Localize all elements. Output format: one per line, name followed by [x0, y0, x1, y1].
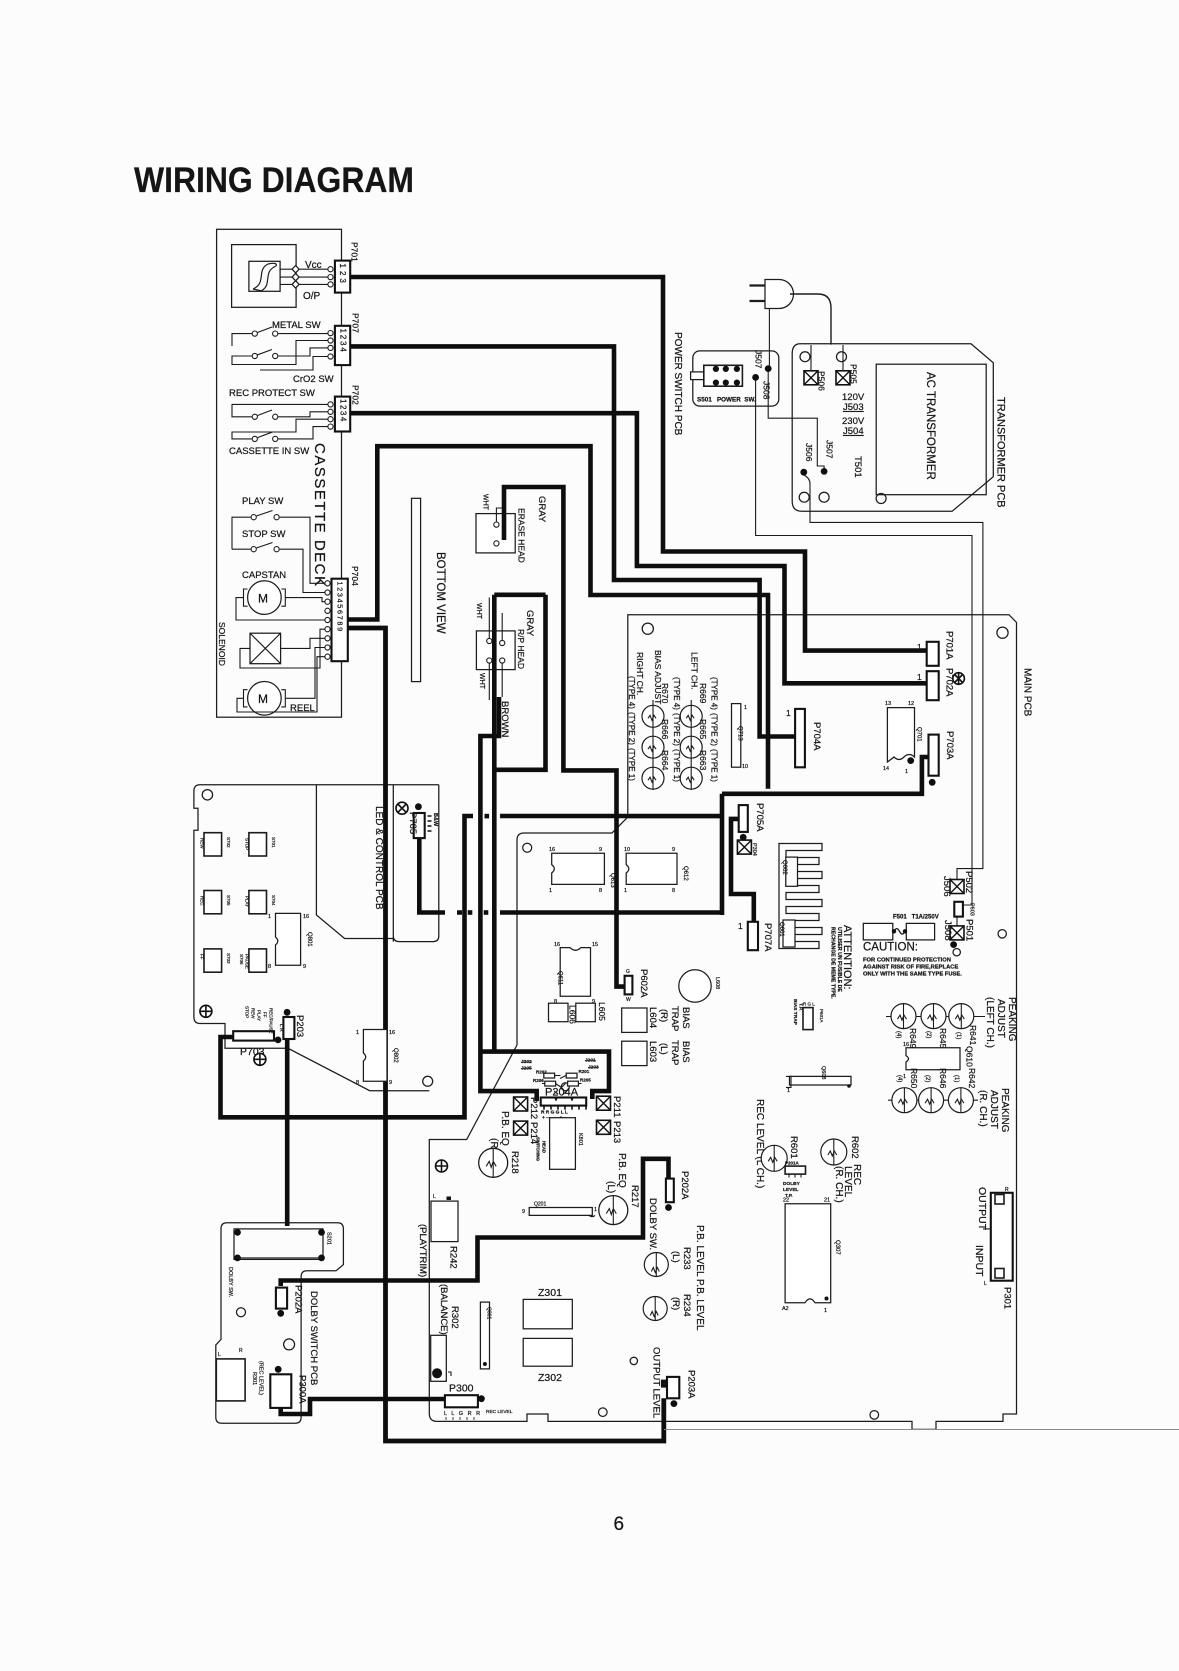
- svg-text:TRAP: TRAP: [669, 1040, 680, 1065]
- svg-text:L605: L605: [597, 1002, 607, 1021]
- svg-text:(L): (L): [658, 1043, 669, 1055]
- svg-text:J508: J508: [762, 381, 772, 400]
- IC Q201 bar: [529, 1208, 595, 1217]
- button S703 FF: [204, 949, 222, 972]
- svg-text:P213: P213: [611, 1121, 622, 1143]
- svg-text:1: 1: [356, 1030, 359, 1036]
- wire J506 to P502: [804, 475, 983, 881]
- svg-text:R670: R670: [660, 683, 670, 704]
- svg-text:R302: R302: [449, 1306, 460, 1329]
- connector P702A: [927, 671, 939, 700]
- svg-text:1: 1: [624, 888, 627, 894]
- svg-text:L R: L R: [278, 1024, 284, 1032]
- trimmer R217: [599, 1196, 628, 1225]
- svg-text:R206: R206: [533, 1078, 544, 1083]
- svg-text:(L): (L): [670, 1251, 681, 1263]
- screw near P702A: [953, 673, 965, 685]
- svg-text:R666: R666: [660, 719, 670, 740]
- node J507 power switch: [765, 365, 772, 372]
- svg-text:9: 9: [672, 847, 675, 853]
- svg-text:POWER SWITCH PCB: POWER SWITCH PCB: [672, 332, 683, 436]
- svg-text:F501 T1A/250V: F501 T1A/250V: [893, 915, 939, 921]
- svg-text:123456789: 123456789: [336, 582, 345, 633]
- svg-text:R218: R218: [509, 1151, 520, 1174]
- svg-text:CASSETTE DECK: CASSETTE DECK: [311, 443, 328, 588]
- svg-text:OUTPUT: OUTPUT: [976, 1187, 988, 1231]
- svg-text:L: L: [984, 1281, 987, 1287]
- fuse F501: [892, 929, 896, 933]
- P701 pin circles: [328, 267, 333, 272]
- wire P300A to P300: [281, 1399, 445, 1414]
- button S704 PLAY: [249, 891, 267, 914]
- svg-text:(TYPE 4): (TYPE 4): [710, 677, 719, 710]
- svg-text:J205: J205: [521, 1066, 532, 1072]
- wire V1 vertical: [720, 794, 725, 915]
- connector P703A: [929, 735, 939, 776]
- svg-text:R664: R664: [660, 750, 670, 771]
- svg-text:R602: R602: [849, 1136, 860, 1159]
- svg-text:R641: R641: [968, 1025, 978, 1046]
- svg-text:PAUSE: PAUSE: [245, 954, 250, 969]
- svg-text:STOP SW: STOP SW: [242, 529, 285, 540]
- svg-text:CrO2 SW: CrO2 SW: [293, 374, 334, 385]
- coil L603: [622, 1041, 647, 1065]
- page rule line: [664, 1429, 1179, 1431]
- svg-text:PEAKING: PEAKING: [999, 1088, 1010, 1133]
- metal switch: [252, 331, 257, 336]
- svg-text:1234: 1234: [339, 329, 348, 354]
- wire J508 to P501: [756, 380, 972, 927]
- wire P202A dolby to main: [281, 1159, 669, 1286]
- svg-text:STOP: STOP: [245, 838, 250, 850]
- svg-text:(PLAYTRIM): (PLAYTRIM): [417, 1224, 428, 1277]
- wire P203 to dolby pcb: [285, 1040, 290, 1226]
- IC Q713: [732, 704, 741, 768]
- svg-text:R645: R645: [938, 1028, 948, 1049]
- svg-text:PLAY SW: PLAY SW: [242, 496, 283, 507]
- erase head box: [476, 514, 515, 553]
- svg-text:P300A: P300A: [297, 1375, 308, 1404]
- fuse clip left: [863, 923, 893, 940]
- heatsink: [779, 844, 822, 949]
- svg-text:FF: FF: [263, 1012, 268, 1018]
- svg-text:(TYPE 4): (TYPE 4): [672, 677, 681, 710]
- svg-text:BOTTOM VIEW: BOTTOM VIEW: [434, 552, 446, 634]
- svg-text:10: 10: [742, 764, 748, 770]
- connector P300: [445, 1395, 478, 1407]
- svg-text:W: W: [626, 997, 631, 1003]
- dolby switch pcb outline: [216, 1223, 344, 1424]
- svg-text:(4): (4): [896, 1075, 902, 1082]
- trimmer R601: [761, 1145, 787, 1171]
- svg-text:1: 1: [787, 1088, 790, 1094]
- svg-text:REC/PAUSE: REC/PAUSE: [269, 1008, 274, 1034]
- svg-text:S201: S201: [326, 1232, 332, 1245]
- connector P300A: [270, 1374, 291, 1408]
- IC Q610: [906, 1048, 960, 1070]
- transformer PCB outline: [792, 344, 993, 512]
- svg-text:J504: J504: [843, 426, 864, 437]
- svg-text:ERASE HEAD: ERASE HEAD: [517, 508, 527, 563]
- svg-text:S703: S703: [226, 953, 231, 964]
- svg-text:CAPSTAN: CAPSTAN: [242, 570, 286, 581]
- svg-text:P204A: P204A: [545, 1087, 579, 1099]
- node J508 power switch: [752, 374, 759, 381]
- svg-text:S702: S702: [226, 837, 231, 848]
- svg-text:J506: J506: [804, 443, 814, 462]
- trimmer R234: [643, 1297, 667, 1321]
- svg-text:(R): (R): [658, 1009, 669, 1022]
- svg-text:13: 13: [885, 701, 891, 707]
- power switch PCB outline: [693, 351, 779, 406]
- svg-text:16: 16: [903, 1042, 909, 1048]
- svg-text:L604: L604: [647, 1007, 658, 1028]
- wire P204A pocket: [480, 1052, 609, 1099]
- test point P304: [737, 840, 751, 854]
- coil L605: [576, 1003, 596, 1022]
- AC transformer box: [876, 364, 986, 495]
- wire H1 to junction V1: [500, 814, 722, 819]
- wire P704 upper run: [348, 446, 768, 789]
- bottom view bar: [412, 498, 421, 681]
- svg-text:16: 16: [389, 1030, 395, 1036]
- svg-text:(R. CH.): (R. CH.): [833, 1166, 844, 1203]
- svg-text:J507: J507: [825, 440, 835, 459]
- test point P211: [597, 1096, 611, 1110]
- IC Q611: [560, 948, 590, 997]
- svg-text:(REC LEVEL): (REC LEVEL): [258, 1361, 264, 1395]
- wire R/P head gray: [494, 595, 545, 1052]
- CrO2 switch: [252, 353, 257, 358]
- trimmer R663: [680, 767, 702, 789]
- svg-text:P301: P301: [1002, 1287, 1013, 1309]
- wire P701 to P701A: [350, 277, 927, 651]
- svg-text:(L): (L): [605, 1181, 616, 1193]
- svg-text:R649: R649: [908, 1028, 918, 1049]
- resistor R242: [431, 1201, 458, 1242]
- test point P201A: [785, 1166, 805, 1174]
- test point P213: [597, 1120, 611, 1134]
- svg-text:P701: P701: [350, 242, 360, 262]
- svg-text:DOLBY SW.: DOLBY SW.: [647, 1198, 658, 1250]
- svg-text:INPUT: INPUT: [973, 1245, 985, 1277]
- svg-text:P702: P702: [351, 385, 361, 405]
- svg-text:12: 12: [908, 701, 914, 707]
- coil L608: [679, 970, 711, 1002]
- svg-text:Q801: Q801: [306, 932, 312, 947]
- svg-text:9: 9: [389, 1080, 392, 1086]
- svg-text:CASSETTE IN SW: CASSETTE IN SW: [229, 446, 309, 457]
- connector P203: [283, 1017, 294, 1039]
- svg-text:AC TRANSFORMER: AC TRANSFORMER: [924, 372, 936, 480]
- connector P203A: [667, 1377, 679, 1398]
- svg-text:R G L: R G L: [803, 1002, 815, 1007]
- wire P707 to P704A: [350, 346, 795, 736]
- svg-text:REW: REW: [200, 838, 205, 849]
- svg-text:DOLBY SW.: DOLBY SW.: [227, 1267, 233, 1298]
- svg-text:1: 1: [824, 1308, 827, 1314]
- svg-text:P705: P705: [407, 812, 418, 834]
- trimmer R664: [642, 767, 664, 789]
- connector P705A: [739, 805, 748, 832]
- svg-text:R642: R642: [967, 1068, 977, 1089]
- svg-text:22: 22: [783, 1198, 789, 1204]
- main PCB outline: [429, 615, 1016, 1430]
- svg-text:(1): (1): [955, 1032, 961, 1039]
- svg-text:MAIN PCB: MAIN PCB: [1022, 668, 1033, 717]
- erase head pins: [494, 522, 499, 527]
- fuse clip right: [906, 923, 934, 940]
- connector P707: [335, 326, 350, 365]
- wire junction diamonds: [292, 266, 299, 289]
- svg-text:Q602: Q602: [781, 860, 787, 875]
- resistor R302: [431, 1335, 447, 1381]
- svg-text:P505: P505: [849, 364, 859, 384]
- svg-text:Q612: Q612: [682, 866, 688, 881]
- screw P703: [254, 1053, 266, 1065]
- svg-text:1: 1: [268, 914, 271, 920]
- svg-text:R234: R234: [681, 1294, 692, 1317]
- svg-text:L: L: [433, 1194, 436, 1200]
- svg-text:(1): (1): [953, 1075, 959, 1082]
- svg-text:PLAY: PLAY: [257, 1010, 262, 1021]
- svg-text:(TYPE 1): (TYPE 1): [627, 748, 636, 781]
- main PCB mounting holes: [642, 623, 653, 634]
- svg-text:J506: J506: [941, 876, 952, 897]
- trimmer R665: [680, 736, 702, 758]
- svg-text:REC PROTECT SW: REC PROTECT SW: [229, 388, 315, 399]
- svg-text:R: R: [1005, 1187, 1009, 1193]
- svg-text:1234: 1234: [339, 399, 348, 423]
- svg-text:123: 123: [338, 264, 347, 286]
- svg-text:(TYPE 2): (TYPE 2): [627, 712, 636, 745]
- svg-text:TRANSFORMER PCB: TRANSFORMER PCB: [995, 397, 1007, 508]
- svg-text:P506: P506: [817, 371, 827, 391]
- svg-text:R650: R650: [909, 1068, 919, 1089]
- connector P202A dolby: [276, 1288, 287, 1309]
- svg-text:R217: R217: [629, 1185, 640, 1208]
- svg-text:P212: P212: [528, 1097, 539, 1119]
- wire brown to P204A: [480, 697, 536, 1101]
- wire erase head gray: [504, 487, 625, 987]
- svg-text:P602A: P602A: [638, 969, 649, 998]
- connector P701: [335, 261, 350, 293]
- svg-text:(LEFT CH.): (LEFT CH.): [984, 997, 995, 1048]
- svg-text:8: 8: [356, 1080, 359, 1086]
- svg-text:9: 9: [522, 1209, 525, 1215]
- svg-text:REC LEVEL: REC LEVEL: [486, 1409, 513, 1415]
- svg-text:6: 6: [614, 1514, 625, 1535]
- photo sensor outer box: [232, 245, 297, 308]
- wire junction H3 dash-dots: [468, 910, 473, 915]
- resistor network above P204A: [542, 1073, 582, 1095]
- svg-text:PLAY: PLAY: [245, 896, 250, 907]
- screw near LED pcb: [200, 1005, 212, 1017]
- jumper Z301: [523, 1299, 572, 1328]
- svg-text:A2: A2: [782, 1306, 789, 1312]
- svg-text:AGAINST RISK OF FIRE,REPLAC: AGAINST RISK OF FIRE,REPLACE: [863, 965, 958, 971]
- trimmer R649: [891, 1004, 916, 1029]
- photo sensor element: [249, 261, 280, 291]
- connector P506: [804, 371, 818, 385]
- svg-text:Vcc: Vcc: [305, 260, 322, 271]
- P204A pin ticks: [544, 1106, 586, 1110]
- svg-text:LEVEL: LEVEL: [783, 1187, 799, 1193]
- AC plug: [765, 280, 794, 309]
- wire junction H1 dash-dot: [485, 814, 490, 819]
- button S702 REW: [204, 833, 222, 856]
- svg-text:8: 8: [268, 964, 271, 970]
- svg-text:ADJUST: ADJUST: [988, 1090, 999, 1129]
- svg-text:(TYPE 2): (TYPE 2): [710, 713, 719, 746]
- svg-text:Q802: Q802: [392, 1048, 398, 1063]
- svg-text:M: M: [258, 592, 268, 606]
- connector P301: [991, 1193, 1013, 1281]
- svg-text:(TYPE 4): (TYPE 4): [627, 676, 636, 709]
- trimmer R646: [919, 1088, 944, 1113]
- R/P head box: [476, 631, 515, 670]
- svg-text:WHT: WHT: [482, 494, 489, 511]
- IC Q307: [785, 1204, 831, 1303]
- rec level switch box: [216, 1359, 245, 1401]
- svg-text:P707: P707: [351, 313, 361, 333]
- svg-text:P211: P211: [611, 1096, 622, 1117]
- svg-text:15: 15: [592, 942, 598, 948]
- svg-text:REW: REW: [251, 1008, 256, 1019]
- svg-text:(4): (4): [895, 1031, 901, 1038]
- rec protect switch: [252, 414, 257, 419]
- connector P704A: [795, 709, 805, 767]
- svg-text:16: 16: [303, 914, 309, 920]
- svg-text:BIAS TRAP: BIAS TRAP: [792, 999, 798, 1026]
- svg-text:P702A: P702A: [944, 668, 955, 697]
- wire P705 to H3: [419, 838, 462, 913]
- svg-text:(TYPE 2): (TYPE 2): [672, 713, 681, 746]
- peaking adjust left channel line: [886, 1016, 985, 1018]
- svg-text:Q307: Q307: [834, 1240, 840, 1255]
- button S701 STOP: [249, 833, 267, 856]
- IC Q701: [887, 708, 914, 762]
- connector P502 / J506: [950, 880, 964, 894]
- svg-text:BIAS: BIAS: [680, 1007, 691, 1029]
- coil L604: [622, 1008, 647, 1032]
- svg-text:Q701: Q701: [916, 727, 922, 742]
- svg-text:Q613: Q613: [609, 873, 615, 888]
- svg-text:S701: S701: [271, 837, 276, 848]
- jumper Z302: [523, 1338, 572, 1366]
- transistor Q301: [480, 1302, 489, 1369]
- trimmer R641: [949, 1004, 974, 1029]
- capstan motor: [248, 581, 282, 615]
- svg-text:16: 16: [549, 847, 555, 853]
- svg-text:SWITCHING: SWITCHING: [536, 1137, 541, 1161]
- svg-text:FOR CONTINUED PROTECTION: FOR CONTINUED PROTECTION: [863, 958, 951, 964]
- transistor Q601: [783, 920, 795, 947]
- svg-text:GRAY: GRAY: [536, 496, 547, 523]
- svg-text:Q201: Q201: [534, 1202, 546, 1208]
- svg-text:(R. CH.): (R. CH.): [977, 1090, 988, 1127]
- svg-text:P.B. EQ: P.B. EQ: [499, 1111, 510, 1146]
- svg-text:1: 1: [903, 1074, 906, 1080]
- S501 contact dots: [713, 366, 719, 372]
- svg-text:Q610: Q610: [965, 1046, 975, 1067]
- svg-text:J203: J203: [588, 1065, 599, 1071]
- svg-text:1: 1: [594, 1207, 597, 1213]
- svg-text:WHT: WHT: [478, 673, 485, 690]
- svg-text:P203: P203: [294, 1015, 305, 1037]
- svg-text:ADJUST: ADJUST: [995, 999, 1006, 1038]
- svg-text:1: 1: [738, 921, 743, 931]
- trimmer R650: [892, 1088, 917, 1113]
- mounting hole IC area: [523, 843, 532, 852]
- svg-text:R646: R646: [938, 1068, 948, 1089]
- svg-text:Z301: Z301: [538, 1287, 562, 1299]
- svg-text:Q608: Q608: [820, 1066, 826, 1079]
- trimmer R642: [948, 1088, 973, 1113]
- connector bar P703: [233, 1031, 274, 1040]
- svg-text:(2): (2): [924, 1075, 930, 1082]
- svg-text:(R): (R): [670, 1297, 681, 1310]
- node J506 transformer: [800, 469, 807, 476]
- svg-text:R: R: [239, 1348, 243, 1354]
- svg-text:1: 1: [549, 888, 552, 894]
- svg-text:S501 POWER SW.: S501 POWER SW.: [697, 397, 756, 404]
- stop switch: [251, 547, 256, 552]
- svg-text:(2): (2): [925, 1031, 931, 1038]
- svg-text:R663: R663: [698, 750, 708, 771]
- svg-text:WIRING DIAGRAM: WIRING DIAGRAM: [134, 161, 414, 200]
- IC Q608: [790, 1076, 852, 1085]
- svg-text:R233: R233: [681, 1247, 692, 1270]
- svg-text:(TYPE 1): (TYPE 1): [710, 749, 719, 782]
- reel motor: [248, 682, 282, 716]
- svg-text:Q611: Q611: [557, 971, 563, 986]
- svg-text:T501: T501: [852, 456, 863, 478]
- svg-text:(TYPE 1): (TYPE 1): [672, 749, 681, 782]
- svg-text:J202: J202: [521, 1059, 532, 1065]
- button S706 PAUSE: [249, 949, 267, 972]
- wire P705A to P707A: [731, 819, 754, 922]
- R/P head pins: [487, 638, 492, 643]
- svg-text:P603: P603: [969, 903, 975, 916]
- IC Q802: [363, 1030, 387, 1082]
- svg-text:1: 1: [917, 642, 922, 652]
- cassette in switch: [252, 436, 257, 441]
- svg-text:P.B. LEVEL P.B. LEVEL: P.B. LEVEL P.B. LEVEL: [694, 1225, 705, 1331]
- svg-text:ONLY WITH THE SAME TYPE F: ONLY WITH THE SAME TYPE FUSE.: [863, 972, 962, 978]
- svg-text:R R G G L L: R R G G L L: [541, 1110, 568, 1116]
- cassette deck outline: [217, 229, 342, 717]
- svg-text:Z302: Z302: [538, 1372, 562, 1384]
- svg-text:P304: P304: [751, 843, 757, 856]
- coil L606: [549, 1003, 569, 1022]
- wire J507 to transformer J507: [768, 371, 824, 471]
- svg-text:R/P HEAD: R/P HEAD: [516, 629, 526, 669]
- svg-text:1: 1: [744, 705, 747, 711]
- svg-text:FF: FF: [200, 954, 205, 960]
- svg-text:1: 1: [905, 769, 908, 775]
- svg-text:21: 21: [824, 1198, 830, 1204]
- button S705 REC: [204, 891, 222, 914]
- play switch: [251, 515, 256, 520]
- svg-text:M: M: [258, 692, 268, 706]
- svg-text:8: 8: [599, 888, 602, 894]
- connector P702: [335, 397, 350, 432]
- svg-text:WHT: WHT: [475, 603, 482, 620]
- svg-text:O/P: O/P: [303, 291, 321, 302]
- svg-text:L608: L608: [714, 977, 720, 989]
- IC Q612: [626, 853, 677, 884]
